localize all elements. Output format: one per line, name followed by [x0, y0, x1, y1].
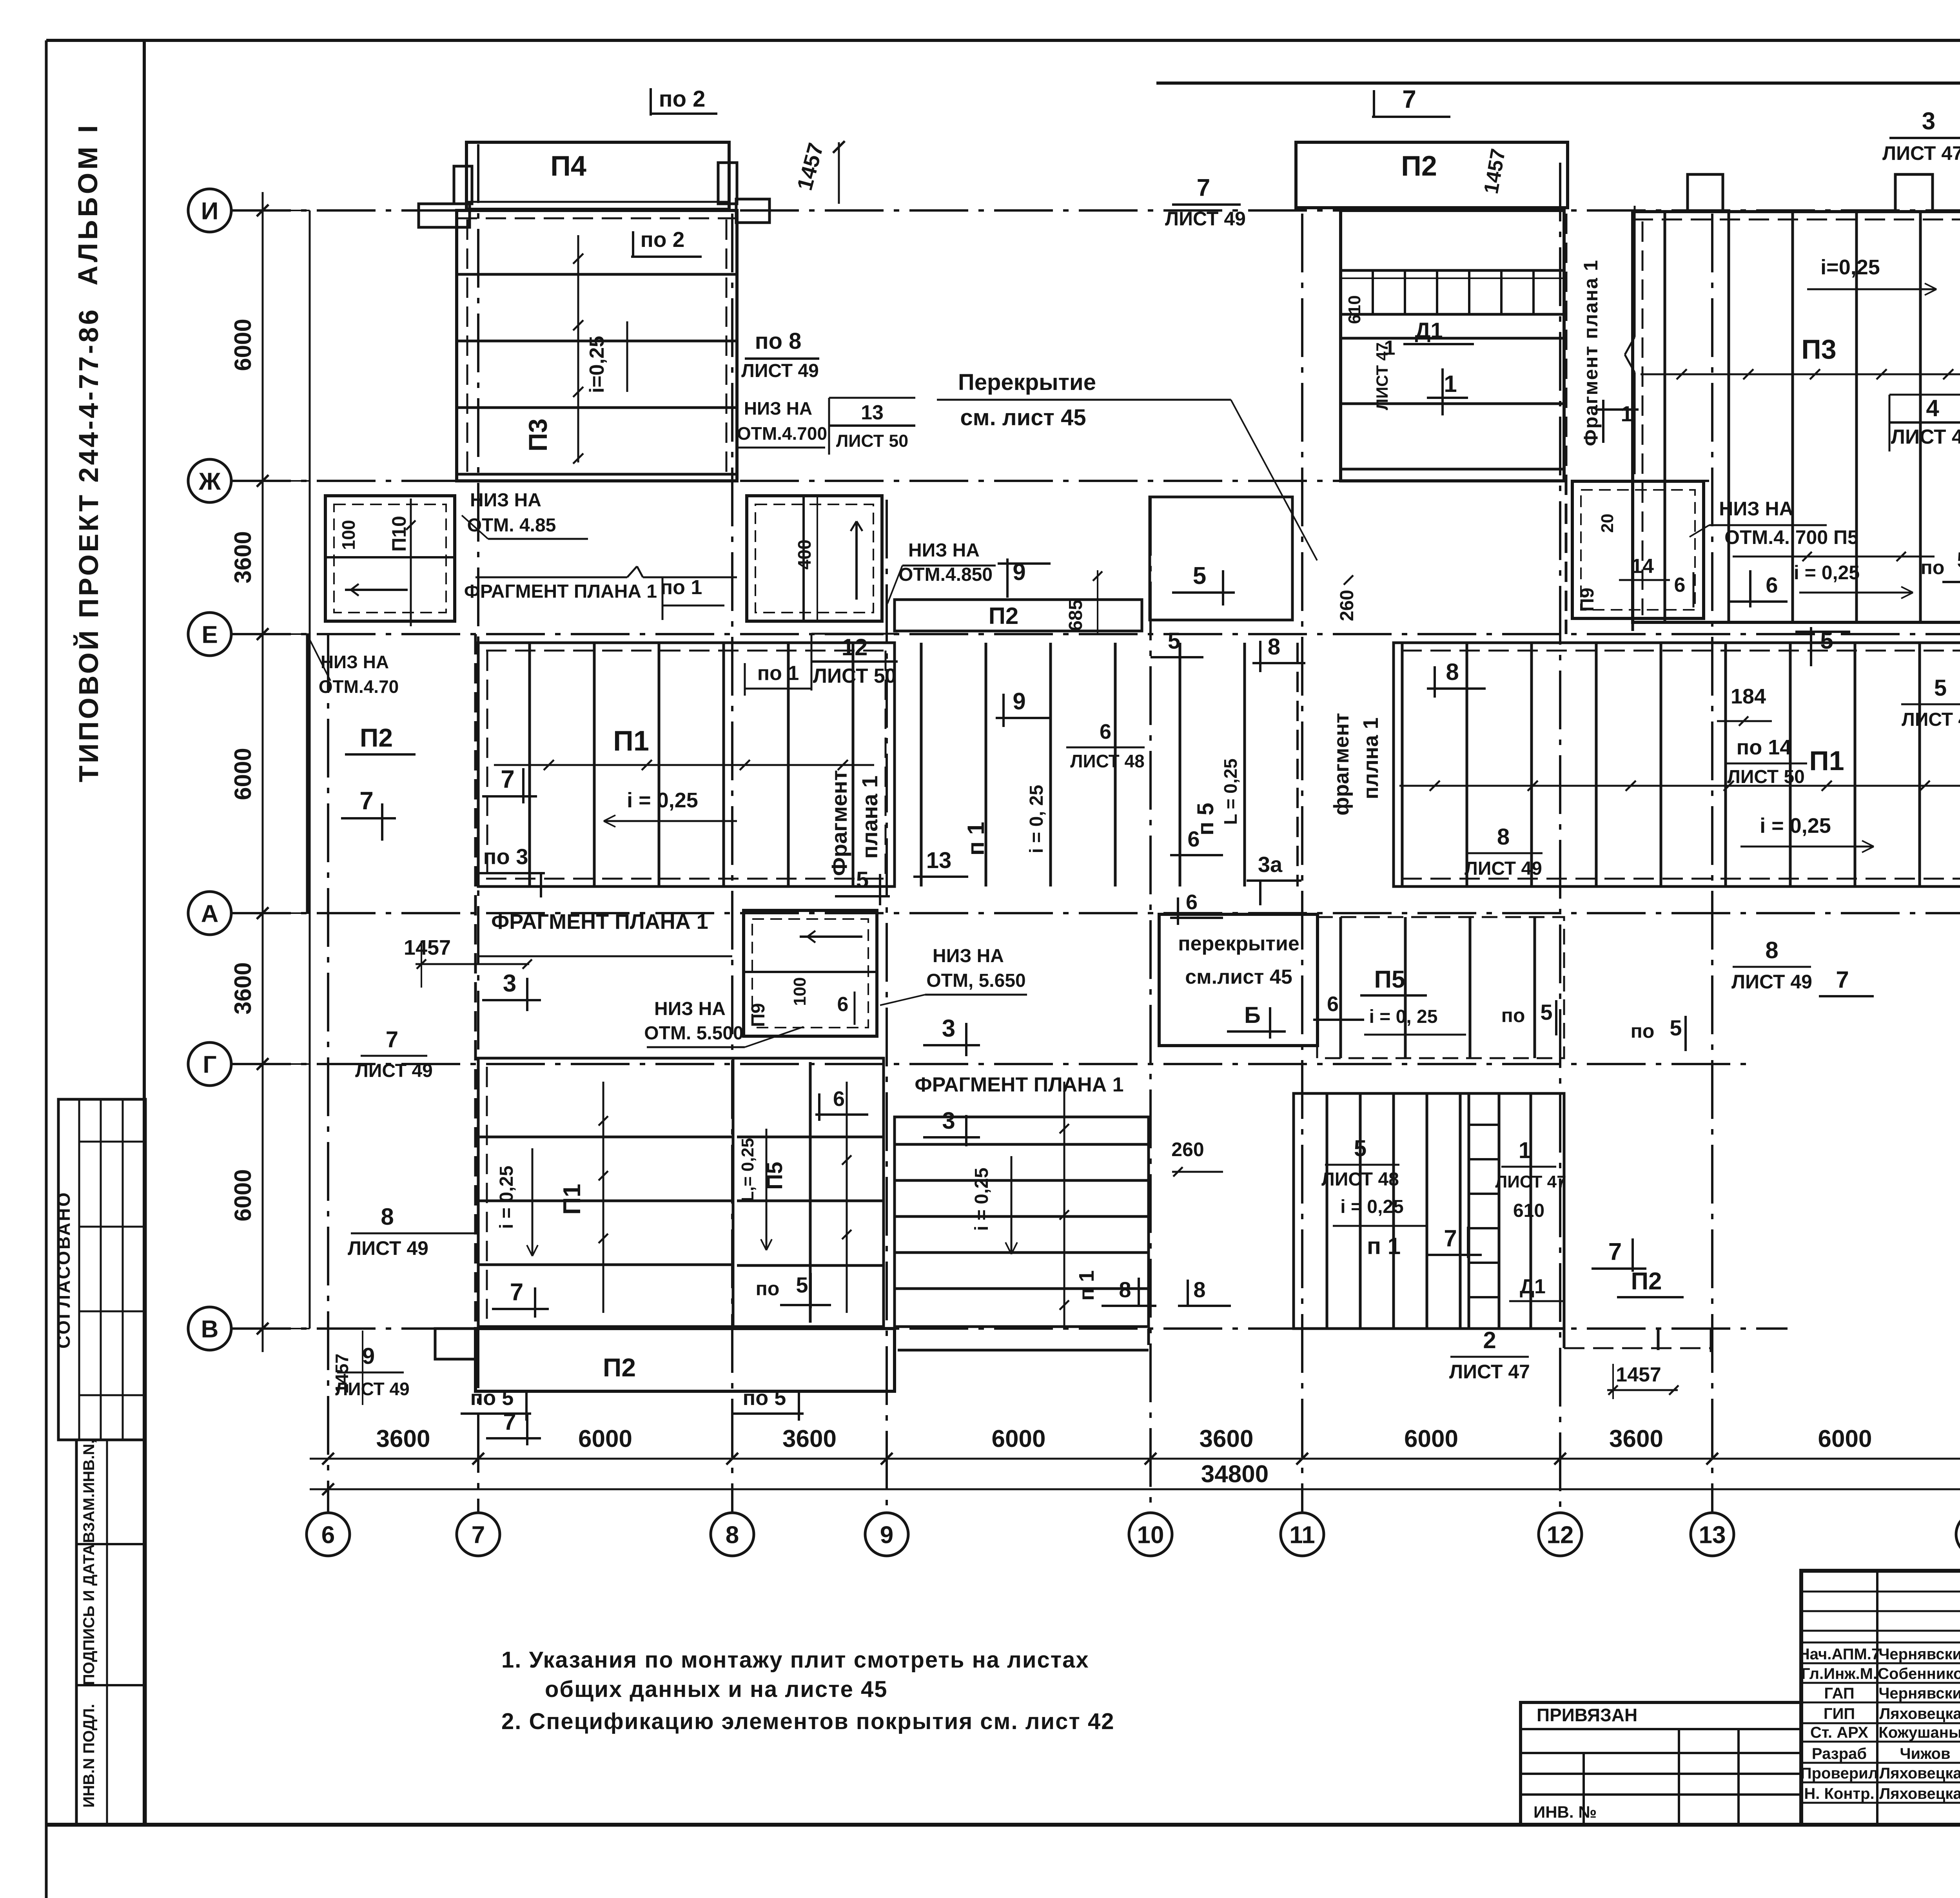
- svg-text:ОТМ, 5.650: ОТМ, 5.650: [926, 970, 1025, 991]
- svg-text:ФРАГМЕНТ ПЛАНА 1: ФРАГМЕНТ ПЛАНА 1: [915, 1073, 1123, 1096]
- svg-text:7: 7: [472, 1521, 485, 1548]
- slab joints П3 top-left: [457, 273, 737, 276]
- svg-text:13: 13: [861, 401, 884, 424]
- svg-text:3: 3: [503, 970, 516, 997]
- svg-text:Ст. АРХ: Ст. АРХ: [1810, 1724, 1868, 1741]
- svg-text:11: 11: [1289, 1521, 1315, 1548]
- axis line В horizontal: [232, 1327, 1788, 1330]
- svg-text:ЛИСТ 48: ЛИСТ 48: [1891, 425, 1960, 448]
- svg-text:8: 8: [1446, 659, 1459, 685]
- svg-text:5: 5: [1957, 547, 1960, 572]
- svg-text:по 3: по 3: [483, 844, 528, 869]
- svg-text:ЛИСТ 49: ЛИСТ 49: [1165, 208, 1246, 230]
- svg-text:i=0,25: i=0,25: [586, 336, 608, 393]
- svg-text:12: 12: [1547, 1521, 1574, 1548]
- svg-text:6: 6: [1100, 720, 1111, 743]
- privyazan table: [1521, 1702, 1801, 1825]
- svg-text:6: 6: [1327, 992, 1339, 1016]
- axis line 8 vertical: [731, 214, 733, 1512]
- svg-text:ФРАГМЕНТ ПЛАНА 1: ФРАГМЕНТ ПЛАНА 1: [464, 581, 657, 602]
- title block outer: [1801, 1571, 1960, 1825]
- svg-text:П2: П2: [1631, 1268, 1662, 1295]
- svg-text:8: 8: [1268, 634, 1280, 660]
- svg-text:по 5: по 5: [743, 1386, 786, 1410]
- axis line А horizontal: [232, 912, 1960, 914]
- svg-text:9: 9: [362, 1343, 375, 1369]
- svg-text:12: 12: [842, 634, 868, 660]
- dashed wall corridor ЕА left: [1296, 643, 1299, 886]
- svg-text:ЛИСТ 48: ЛИСТ 48: [1321, 1169, 1399, 1190]
- svg-text:L = 0,25: L = 0,25: [1220, 758, 1241, 825]
- corridor dashed walls x≈3995-4230: [1565, 214, 1568, 634]
- svg-text:П9: П9: [748, 1003, 769, 1027]
- svg-text:п 1: п 1: [1367, 1233, 1401, 1259]
- П1 right slab outline: [1394, 643, 1960, 886]
- svg-text:ЛИСТ 47: ЛИСТ 47: [1882, 142, 1960, 164]
- П10 box left: [325, 496, 455, 621]
- svg-text:7: 7: [1836, 966, 1849, 993]
- axis bubble 13: [1691, 1513, 1734, 1556]
- svg-text:НИЗ НА: НИЗ НА: [470, 490, 541, 511]
- svg-text:П1: П1: [613, 725, 649, 757]
- svg-text:i = 0,25: i = 0,25: [971, 1167, 992, 1231]
- svg-text:пллна 1: пллна 1: [1359, 718, 1383, 799]
- top-left wing П4 head outline: [466, 142, 729, 209]
- mid-span line top-right with ticks: [1641, 373, 1960, 375]
- axis line И horizontal: [232, 209, 1960, 212]
- axis bubble И: [188, 189, 231, 232]
- svg-text:i = 0,25: i = 0,25: [1794, 562, 1860, 584]
- svg-text:ЛИСТ 50: ЛИСТ 50: [836, 431, 908, 451]
- wall notch right of П4: [718, 163, 737, 204]
- svg-text:5: 5: [1193, 562, 1206, 589]
- svg-text:5: 5: [1934, 675, 1947, 701]
- П10 box right: [747, 496, 882, 621]
- svg-text:7: 7: [501, 765, 515, 793]
- П2 slab band ЖЕ: [895, 600, 1142, 631]
- svg-text:3а: 3а: [1258, 852, 1283, 877]
- svg-text:6000: 6000: [1818, 1425, 1872, 1452]
- svg-text:i=0,25: i=0,25: [1820, 256, 1880, 279]
- svg-text:П10: П10: [388, 516, 410, 552]
- svg-text:10: 10: [1137, 1521, 1164, 1548]
- mid tick line П5 bottom: [846, 1082, 848, 1313]
- page inner frame left: [143, 40, 146, 1825]
- svg-text:Нач.АПМ.7: Нач.АПМ.7: [1798, 1646, 1880, 1663]
- svg-text:400: 400: [794, 540, 815, 570]
- svg-text:АЛЬБОМ I: АЛЬБОМ I: [73, 122, 103, 286]
- svg-text:см. лист 45: см. лист 45: [960, 405, 1086, 430]
- svg-text:ГАП: ГАП: [1824, 1685, 1854, 1702]
- svg-text:7: 7: [1608, 1238, 1622, 1265]
- page outer border left: [45, 40, 48, 1898]
- axis bubble В: [188, 1307, 231, 1350]
- svg-text:по 14: по 14: [1737, 736, 1792, 759]
- arrow mark П9 left top: [800, 935, 862, 938]
- svg-text:9: 9: [880, 1521, 893, 1548]
- slab joints П1 bottom-right: [1326, 1093, 1328, 1329]
- courtyard square box: [1150, 497, 1292, 620]
- slab joints П5 bottom grid: [809, 1062, 812, 1323]
- svg-text:ЛИСТ 47: ЛИСТ 47: [1449, 1361, 1530, 1383]
- svg-text:6000: 6000: [578, 1425, 632, 1452]
- left margin lower stamp table: [76, 1440, 145, 1825]
- svg-text:7: 7: [1197, 174, 1210, 201]
- svg-text:НИЗ НА: НИЗ НА: [908, 540, 980, 561]
- svg-text:Ляховецкая: Ляховецкая: [1879, 1705, 1960, 1722]
- svg-text:8: 8: [1119, 1277, 1131, 1302]
- axis bubble 10: [1129, 1513, 1172, 1556]
- svg-text:ЛИСТ 49: ЛИСТ 49: [1465, 858, 1542, 879]
- svg-text:по: по: [1631, 1020, 1655, 1042]
- svg-text:100: 100: [790, 977, 809, 1006]
- svg-text:685: 685: [1065, 600, 1086, 631]
- svg-text:ЛИСТ 47: ЛИСТ 47: [1373, 343, 1391, 410]
- svg-text:6: 6: [321, 1521, 335, 1548]
- svg-text:общих данных и на листе: общих данных и на листе 45: [545, 1677, 887, 1702]
- svg-text:П2: П2: [1401, 150, 1437, 182]
- svg-text:П2: П2: [989, 603, 1019, 629]
- parapet notches top-right wing: [1688, 174, 1723, 212]
- svg-text:6: 6: [837, 993, 849, 1016]
- svg-text:5: 5: [1354, 1136, 1367, 1161]
- svg-text:6: 6: [1674, 574, 1686, 596]
- svg-text:по: по: [756, 1278, 780, 1300]
- svg-text:7: 7: [510, 1279, 523, 1306]
- svg-text:ФРАГМЕНТ ПЛАНА 1: ФРАГМЕНТ ПЛАНА 1: [491, 910, 708, 934]
- svg-text:Б: Б: [1244, 1002, 1261, 1028]
- svg-text:по 1: по 1: [661, 576, 702, 599]
- svg-text:ЛИСТ 50: ЛИСТ 50: [1727, 767, 1805, 787]
- svg-text:184: 184: [1731, 685, 1766, 708]
- svg-text:L,= 0,25: L,= 0,25: [738, 1138, 757, 1202]
- axis line Г horizontal: [232, 1063, 1748, 1065]
- svg-text:П3: П3: [523, 419, 552, 451]
- svg-text:8: 8: [726, 1521, 739, 1548]
- svg-text:i = 0,25: i = 0,25: [496, 1166, 517, 1229]
- svg-text:34800: 34800: [1201, 1461, 1269, 1488]
- axis line 11 vertical: [1301, 214, 1303, 1512]
- svg-text:5: 5: [856, 867, 869, 893]
- svg-text:И: И: [201, 198, 219, 225]
- svg-text:i = 0, 25: i = 0, 25: [1026, 785, 1047, 854]
- slab joints top-right wing: [1664, 212, 1666, 622]
- svg-text:610: 610: [1345, 295, 1364, 324]
- title block horizontals: [1801, 1591, 1960, 1593]
- svg-text:4: 4: [1926, 395, 1939, 421]
- wall notch left of П4: [454, 166, 472, 204]
- axis bubble 6: [307, 1513, 350, 1556]
- mid-span line band ЖЕ right: [1733, 556, 1935, 558]
- svg-text:610: 610: [1513, 1200, 1544, 1221]
- svg-text:В: В: [201, 1316, 219, 1343]
- axis bubble 12: [1539, 1513, 1582, 1556]
- svg-text:П2: П2: [603, 1353, 636, 1382]
- svg-text:НИЗ НА: НИЗ НА: [744, 398, 812, 419]
- svg-text:фрагмент: фрагмент: [1330, 713, 1353, 816]
- svg-text:1. Указания по монтажу пл: 1. Указания по монтажу плит смотреть на …: [501, 1647, 1089, 1673]
- П5 slab band АГ: [1317, 917, 1564, 1058]
- arrow up П10 right: [855, 521, 858, 600]
- П1 bottom-left slab outline: [478, 1058, 733, 1327]
- svg-text:НИЗ НА: НИЗ НА: [1719, 498, 1793, 520]
- title block verticals: [1876, 1571, 1878, 1825]
- slab joints П1 right: [1401, 643, 1404, 886]
- top-middle wing П2 head outline: [1296, 142, 1568, 208]
- svg-text:Ляховецкая: Ляховецкая: [1879, 1785, 1960, 1802]
- svg-text:3600: 3600: [1609, 1425, 1663, 1452]
- svg-text:П1: П1: [559, 1184, 586, 1215]
- axis line 6 vertical: [327, 634, 329, 1512]
- svg-text:Фрагмент плана 1: Фрагмент плана 1: [1580, 259, 1602, 446]
- slab joints П1 main: [528, 643, 531, 886]
- svg-text:ЛИСТ 49: ЛИСТ 49: [741, 361, 819, 381]
- svg-text:ЛИСТ 50: ЛИСТ 50: [813, 664, 897, 687]
- svg-text:i = 0,25: i = 0,25: [1340, 1196, 1403, 1217]
- svg-text:8: 8: [381, 1204, 394, 1230]
- svg-text:3600: 3600: [376, 1425, 430, 1452]
- svg-text:i = 0,25: i = 0,25: [1760, 814, 1831, 838]
- axis line Ж horizontal: [232, 480, 1709, 482]
- svg-text:Чернявский: Чернявский: [1878, 1685, 1960, 1702]
- svg-text:ЛИСТ 49: ЛИСТ 49: [1731, 971, 1812, 993]
- svg-text:Проверил: Проверил: [1800, 1765, 1878, 1782]
- mid-span line П3 with ticks: [577, 235, 579, 462]
- svg-text:3600: 3600: [230, 962, 256, 1014]
- mid-span line П1 main: [494, 764, 874, 766]
- svg-text:П5: П5: [1374, 966, 1405, 993]
- svg-text:ЛИСТ 47: ЛИСТ 47: [1495, 1172, 1566, 1191]
- axis bubble 9: [865, 1513, 908, 1556]
- svg-text:5: 5: [1540, 1000, 1552, 1024]
- svg-text:9: 9: [1013, 688, 1025, 714]
- top-middle wing body outline: [1341, 210, 1564, 481]
- slab joints П1 bottom-left: [478, 1136, 733, 1138]
- svg-text:П4: П4: [550, 150, 586, 182]
- page outer border top: [46, 39, 1960, 42]
- svg-text:3600: 3600: [1200, 1425, 1254, 1452]
- mid tick line П1 bottom-mid: [1063, 1082, 1065, 1329]
- svg-text:по 5: по 5: [470, 1386, 514, 1410]
- wall line В mid section: [898, 1349, 1149, 1352]
- svg-text:по: по: [1501, 1004, 1525, 1026]
- svg-text:6: 6: [1187, 827, 1200, 851]
- П9 box right band ЖЕ: [1572, 481, 1704, 618]
- svg-text:перекрытие: перекрытие: [1178, 932, 1299, 955]
- svg-text:1: 1: [1444, 371, 1457, 397]
- svg-text:6000: 6000: [1404, 1425, 1458, 1452]
- svg-text:2. Спецификацию элементов п: 2. Спецификацию элементов покрытия см. л…: [501, 1709, 1114, 1734]
- mid line П10 box: [410, 499, 412, 626]
- svg-text:ВЗАМ.ИНВ.N,: ВЗАМ.ИНВ.N,: [80, 1439, 98, 1543]
- svg-text:ИНВ.N ПОДЛ.: ИНВ.N ПОДЛ.: [80, 1704, 98, 1808]
- svg-text:П1: П1: [1809, 745, 1844, 776]
- svg-text:Собенников: Собенников: [1878, 1665, 1960, 1682]
- svg-text:5: 5: [1168, 628, 1180, 654]
- svg-text:7: 7: [1402, 85, 1416, 113]
- svg-text:Ляховецкая: Ляховецкая: [1879, 1765, 1960, 1782]
- svg-text:6000: 6000: [992, 1425, 1046, 1452]
- svg-text:8: 8: [1765, 937, 1778, 963]
- axis bubble 11: [1281, 1513, 1324, 1556]
- svg-text:100: 100: [338, 520, 359, 550]
- slab edge line band АГ left: [478, 955, 732, 957]
- mid tick line П1 bottom-left: [603, 1082, 604, 1313]
- svg-text:ОТМ.4.700: ОТМ.4.700: [737, 423, 827, 444]
- svg-text:6: 6: [1186, 890, 1198, 914]
- svg-text:20: 20: [1598, 514, 1617, 533]
- dashed wall x1213: [474, 634, 477, 1329]
- svg-text:по: по: [1921, 557, 1945, 578]
- svg-text:Гл.Инж.М.: Гл.Инж.М.: [1801, 1665, 1877, 1682]
- axis line 12 vertical: [1559, 163, 1561, 1512]
- section cut line corridor: [1634, 206, 1636, 337]
- svg-text:6: 6: [1766, 573, 1778, 597]
- Д1 ladder strip: [1469, 1093, 1499, 1329]
- inner dashed walls top-right wing: [1642, 221, 1644, 615]
- svg-text:ТИПОВОЙ ПРОЕКТ 244-4-77-86: ТИПОВОЙ ПРОЕКТ 244-4-77-86: [73, 307, 104, 782]
- svg-text:1457: 1457: [1616, 1363, 1661, 1386]
- svg-text:1457: 1457: [404, 936, 451, 959]
- svg-text:НИЗ НА: НИЗ НА: [321, 652, 389, 672]
- svg-text:ЛИСТ 49: ЛИСТ 49: [348, 1237, 428, 1259]
- svg-text:260: 260: [1171, 1138, 1204, 1160]
- svg-text:6000: 6000: [230, 1169, 256, 1221]
- svg-text:ОТМ.4.850: ОТМ.4.850: [898, 564, 993, 585]
- svg-text:i = 0, 25: i = 0, 25: [1369, 1006, 1438, 1027]
- axis bubble 14: [1956, 1513, 1960, 1556]
- svg-text:14: 14: [1631, 555, 1654, 578]
- П1 bottom-mid slab: [895, 1117, 1149, 1327]
- axis bubble 8: [711, 1513, 754, 1556]
- dashed side walls П1 main: [486, 651, 488, 879]
- svg-text:Г: Г: [203, 1051, 216, 1078]
- axis line 9 vertical: [886, 500, 888, 1512]
- svg-text:плана 1: плана 1: [857, 776, 882, 859]
- svg-text:Ж: Ж: [198, 468, 221, 495]
- inner dashed walls П3 top-left: [466, 219, 468, 472]
- svg-text:НИЗ НА: НИЗ НА: [933, 946, 1004, 966]
- svg-text:Кожушаный: Кожушаный: [1878, 1724, 1960, 1741]
- axis bubble Г: [188, 1042, 231, 1086]
- П5 bottom slab outline: [733, 1058, 884, 1327]
- page frame bottom: [46, 1823, 1960, 1827]
- page inner frame top right half: [1156, 82, 1960, 85]
- svg-text:3: 3: [942, 1108, 955, 1134]
- svg-text:1: 1: [1519, 1138, 1531, 1163]
- svg-text:ПРИВЯЗАН: ПРИВЯЗАН: [1537, 1705, 1637, 1725]
- bottom dimension total 34800: [310, 1488, 1960, 1490]
- panel divider line band ЖЕ: [475, 576, 627, 578]
- svg-text:ГИП: ГИП: [1824, 1705, 1855, 1722]
- svg-text:ЛИСТ 48: ЛИСТ 48: [1070, 751, 1144, 771]
- axis line 13 vertical: [1711, 214, 1713, 1512]
- svg-text:6000: 6000: [230, 319, 256, 371]
- svg-text:п 1: п 1: [963, 822, 989, 856]
- svg-text:А: А: [201, 900, 219, 927]
- slab joints middle wing: [1341, 337, 1564, 340]
- svg-text:Е: Е: [201, 621, 218, 648]
- left margin soglasovano table: [58, 1099, 145, 1440]
- svg-text:1457: 1457: [332, 1354, 352, 1394]
- П9 box left: [744, 910, 877, 1036]
- svg-text:13: 13: [1699, 1521, 1726, 1548]
- svg-text:3: 3: [1922, 108, 1935, 135]
- svg-text:Д1: Д1: [1520, 1275, 1546, 1298]
- svg-text:П3: П3: [1801, 334, 1836, 364]
- svg-text:по 2: по 2: [641, 227, 685, 252]
- svg-text:НИЗ НА: НИЗ НА: [654, 999, 726, 1019]
- svg-text:Чижов: Чижов: [1900, 1745, 1950, 1762]
- svg-text:6000: 6000: [230, 748, 256, 800]
- svg-text:i = 0,25: i = 0,25: [627, 789, 698, 812]
- svg-text:ОТМ.4. 700 П5: ОТМ.4. 700 П5: [1724, 526, 1858, 548]
- svg-text:3: 3: [942, 1015, 955, 1042]
- svg-text:1: 1: [1621, 401, 1633, 426]
- svg-text:5: 5: [796, 1273, 808, 1297]
- svg-text:ИНВ. №: ИНВ. №: [1534, 1803, 1597, 1821]
- П2 bottom slab outline: [475, 1329, 895, 1391]
- svg-text:п 1: п 1: [1075, 1270, 1098, 1301]
- svg-text:Перекрытие: Перекрытие: [958, 370, 1096, 395]
- svg-text:ПОДПИСЬ И ДАТА: ПОДПИСЬ И ДАТА: [80, 1544, 98, 1685]
- svg-text:13: 13: [926, 848, 952, 873]
- slab joints П1 mid 2282-2930: [920, 643, 923, 886]
- svg-text:Разраб: Разраб: [1812, 1745, 1867, 1762]
- svg-text:Н. Контр.: Н. Контр.: [1804, 1785, 1874, 1802]
- svg-text:7: 7: [386, 1027, 398, 1052]
- svg-text:ЛИСТ 48: ЛИСТ 48: [1902, 709, 1960, 730]
- mid-span line П1 right: [1399, 785, 1960, 787]
- axis line 10 vertical: [1149, 497, 1152, 1512]
- П1 bottom-right slab outline: [1294, 1093, 1564, 1329]
- svg-text:см.лист 45: см.лист 45: [1185, 966, 1292, 988]
- П5 slab 2930-3300: [1179, 643, 1181, 886]
- arrow mark П10 lower cell: [345, 589, 408, 591]
- axis line Е horizontal: [232, 633, 1960, 635]
- svg-text:по 1: по 1: [757, 662, 799, 685]
- building outline band ЕА left edge: [306, 634, 309, 913]
- svg-text:8: 8: [1497, 824, 1510, 850]
- svg-text:7: 7: [1444, 1225, 1457, 1251]
- svg-text:2: 2: [1483, 1327, 1496, 1353]
- axis bubble Е: [188, 613, 231, 656]
- axis bubble 7: [457, 1513, 500, 1556]
- svg-text:7: 7: [359, 787, 374, 815]
- svg-text:Фрагмент: Фрагмент: [827, 770, 851, 876]
- svg-text:260: 260: [1337, 590, 1357, 621]
- top-left wing П3 body outline: [457, 210, 737, 481]
- svg-text:ЛИСТ 49: ЛИСТ 49: [355, 1060, 433, 1081]
- перекрытие см лист 45 box: [1159, 914, 1318, 1046]
- svg-text:СОГЛАСОВАНО: СОГЛАСОВАНО: [53, 1191, 74, 1349]
- svg-text:Чернявский: Чернявский: [1878, 1646, 1960, 1663]
- svg-text:П2: П2: [360, 723, 393, 752]
- svg-text:6: 6: [833, 1087, 845, 1111]
- axis bubble Ж: [188, 459, 231, 502]
- svg-text:3600: 3600: [782, 1425, 837, 1452]
- axis line 7 vertical: [477, 144, 479, 1512]
- П1 main slab outline: [478, 643, 895, 886]
- svg-text:П9: П9: [1577, 587, 1598, 611]
- bottom dimension chain segments: [310, 1458, 1960, 1460]
- svg-text:5: 5: [1670, 1015, 1682, 1040]
- Д1 lintel strip: [1341, 270, 1564, 314]
- svg-text:8: 8: [1193, 1277, 1205, 1302]
- top-right wing П3 outline: [1633, 212, 1960, 622]
- svg-text:по 8: по 8: [755, 328, 802, 354]
- svg-text:3600: 3600: [230, 531, 256, 583]
